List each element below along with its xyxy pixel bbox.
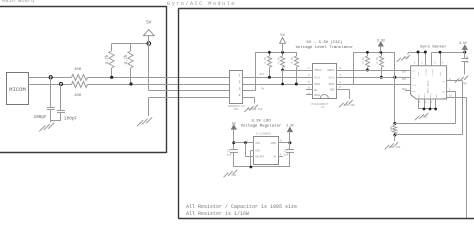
- svg-text:5V: 5V: [261, 87, 265, 90]
- svg-text:2: 2: [421, 62, 423, 65]
- svg-text:2: 2: [238, 81, 240, 85]
- svg-text:3.3V: 3.3V: [286, 124, 294, 128]
- svg-text:3: 3: [238, 88, 240, 92]
- svg-text:VDD: VDD: [439, 71, 442, 75]
- svg-text:PWR_GND: PWR_GND: [344, 104, 355, 107]
- svg-text:1uF: 1uF: [284, 154, 289, 157]
- svg-text:5V → 3.3V (I2C): 5V → 3.3V (I2C): [306, 40, 342, 45]
- svg-text:CLK: CLK: [441, 80, 446, 83]
- svg-text:GND2: GND2: [314, 94, 321, 97]
- svg-text:6: 6: [308, 74, 310, 77]
- svg-text:4.7k: 4.7k: [263, 57, 267, 64]
- svg-text:MICOM: MICOM: [9, 86, 26, 93]
- svg-text:Voltage Regulator: Voltage Regulator: [241, 124, 282, 129]
- svg-text:4.7k: 4.7k: [124, 54, 129, 65]
- svg-text:CN1: CN1: [234, 108, 239, 111]
- svg-text:GND: GND: [423, 116, 428, 119]
- svg-text:S-1206B33: S-1206B33: [256, 132, 271, 135]
- svg-text:3.3V: 3.3V: [377, 40, 386, 44]
- svg-text:GND: GND: [462, 83, 467, 86]
- svg-text:Voltage Level Translator: Voltage Level Translator: [296, 45, 354, 50]
- svg-text:VDD: VDD: [417, 71, 420, 75]
- svg-text:4.7k: 4.7k: [276, 57, 280, 64]
- svg-text:3: 3: [434, 62, 436, 65]
- svg-text:ON/OFF: ON/OFF: [255, 156, 265, 159]
- svg-text:VSS: VSS: [255, 150, 260, 153]
- svg-text:VREF1: VREF1: [327, 69, 335, 72]
- svg-text:2: 2: [339, 86, 341, 89]
- svg-text:SDA1: SDA1: [329, 83, 336, 86]
- svg-text:4: 4: [442, 62, 444, 65]
- svg-text:RESV: RESV: [423, 92, 426, 98]
- svg-text:3.3V: 3.3V: [459, 41, 467, 45]
- svg-text:Gyro/ACC Module: Gyro/ACC Module: [167, 1, 236, 7]
- svg-text:SDA: SDA: [402, 88, 407, 91]
- svg-text:6: 6: [425, 101, 427, 104]
- svg-text:100: 100: [74, 94, 82, 98]
- svg-text:VLOGIC: VLOGIC: [424, 68, 427, 76]
- svg-text:3: 3: [339, 67, 341, 70]
- svg-text:4: 4: [339, 74, 341, 77]
- svg-text:U1: U1: [322, 106, 326, 109]
- svg-text:1: 1: [339, 81, 341, 84]
- svg-text:7: 7: [431, 101, 433, 104]
- svg-text:7: 7: [308, 67, 310, 70]
- svg-text:All Resistor / Capacitor is 10: All Resistor / Capacitor is 1005 size: [186, 204, 297, 210]
- svg-text:1uF: 1uF: [227, 154, 232, 157]
- svg-text:SCL: SCL: [412, 77, 417, 80]
- svg-text:GND: GND: [417, 94, 420, 98]
- svg-text:MPU-3050: MPU-3050: [427, 80, 430, 93]
- svg-text:SCL2: SCL2: [314, 76, 321, 79]
- svg-text:100pF: 100pF: [34, 115, 48, 120]
- svg-text:SCL: SCL: [260, 73, 265, 76]
- svg-text:EN: EN: [314, 89, 318, 92]
- svg-text:Gyro Sensor: Gyro Sensor: [420, 44, 447, 49]
- svg-text:C2: C2: [284, 150, 288, 153]
- svg-text:10k: 10k: [389, 126, 393, 131]
- svg-text:RESV: RESV: [429, 92, 432, 98]
- svg-text:5: 5: [308, 81, 310, 84]
- svg-text:4.7k: 4.7k: [290, 57, 294, 64]
- svg-text:VREF2: VREF2: [314, 69, 322, 72]
- svg-text:GND: GND: [404, 57, 409, 60]
- svg-text:SDO: SDO: [412, 90, 417, 93]
- svg-text:PWR_GND: PWR_GND: [389, 146, 400, 149]
- svg-text:SCL: SCL: [402, 78, 407, 81]
- svg-text:5V: 5V: [146, 20, 152, 26]
- svg-text:4: 4: [280, 153, 282, 156]
- svg-text:INT: INT: [412, 69, 417, 72]
- svg-text:SDA: SDA: [412, 83, 417, 86]
- svg-text:5V: 5V: [280, 34, 285, 38]
- svg-text:VIN: VIN: [255, 142, 260, 145]
- svg-text:4.7k: 4.7k: [361, 57, 365, 64]
- svg-text:NC: NC: [274, 156, 278, 159]
- svg-text:SCL1: SCL1: [329, 76, 336, 79]
- svg-text:100: 100: [74, 68, 82, 72]
- svg-text:PCA9306DCT: PCA9306DCT: [312, 103, 329, 106]
- svg-text:All Resistor is 1/16W: All Resistor is 1/16W: [186, 211, 249, 217]
- svg-text:GND: GND: [231, 174, 236, 177]
- svg-text:GND: GND: [330, 88, 335, 91]
- svg-text:SDA2: SDA2: [314, 83, 321, 86]
- svg-text:CLKIN: CLKIN: [431, 69, 434, 76]
- svg-text:Main Board: Main Board: [2, 0, 34, 4]
- svg-text:GND: GND: [435, 94, 438, 98]
- svg-text:4: 4: [238, 95, 240, 99]
- svg-text:100pF: 100pF: [64, 116, 78, 121]
- svg-text:4.7k: 4.7k: [105, 54, 110, 65]
- svg-text:1: 1: [414, 62, 416, 65]
- svg-text:C1: C1: [227, 150, 231, 153]
- svg-text:INT: INT: [402, 71, 407, 74]
- svg-text:5: 5: [419, 101, 421, 104]
- svg-text:0.1uF: 0.1uF: [466, 55, 469, 63]
- svg-text:4.7k: 4.7k: [375, 57, 379, 64]
- svg-text:VOUT: VOUT: [271, 142, 278, 145]
- svg-text:3.3V LDO: 3.3V LDO: [251, 120, 271, 124]
- svg-text:MODULE_GND: MODULE_GND: [247, 108, 263, 111]
- svg-text:1: 1: [238, 75, 240, 79]
- svg-text:REG: REG: [441, 91, 446, 94]
